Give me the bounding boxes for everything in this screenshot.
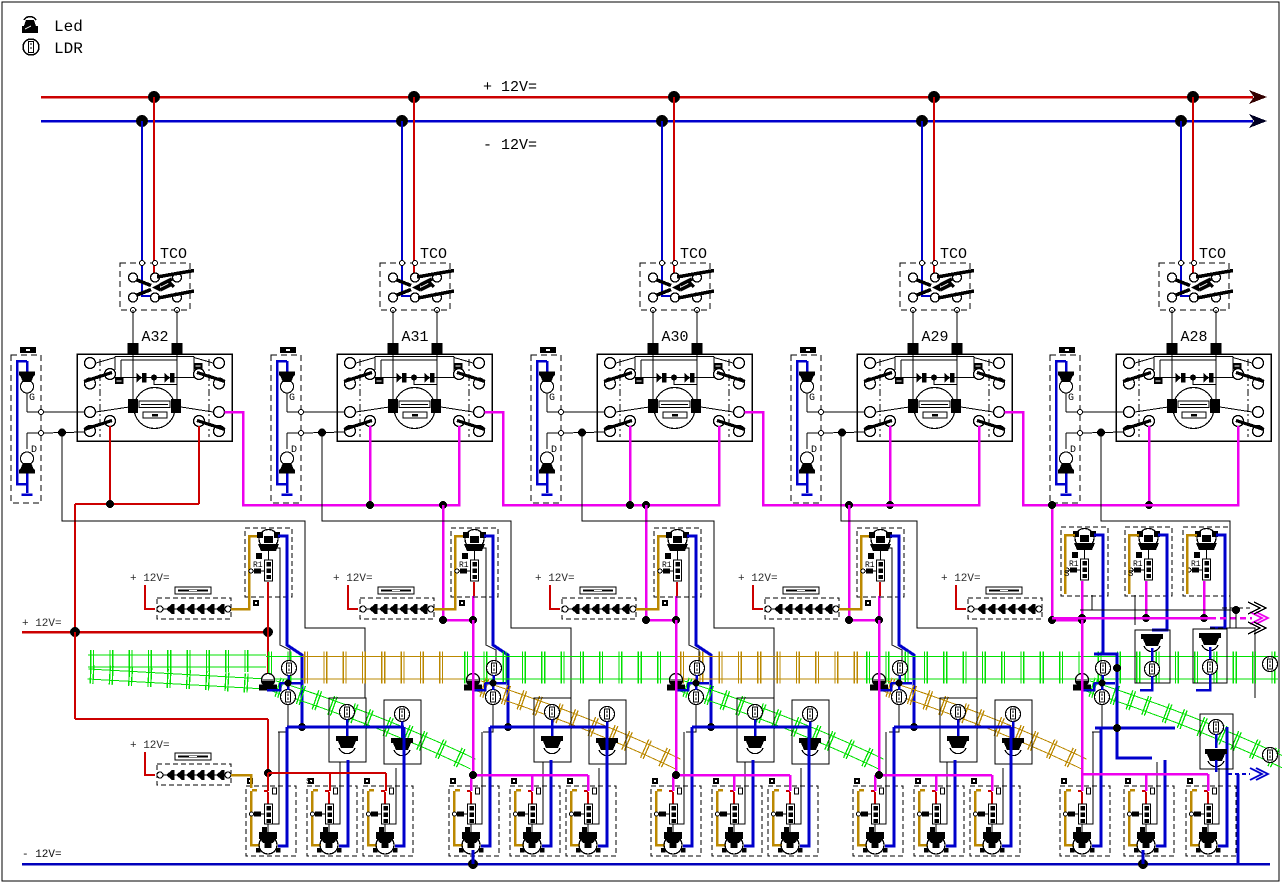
LDR right edge branch [1263,748,1278,763]
detector unit box 5-3 [1186,786,1236,856]
node J5B junction on -12V bus [1175,115,1187,127]
small icon below relay box 4 [865,600,871,606]
wire gold strip to relay box 2 [434,536,465,609]
wire black into box 3-2 [735,762,745,824]
relay unit box 5-1 [1061,527,1108,596]
wire +12V feed to strip 1 [145,585,155,609]
node J3R junction on +12V bus [668,91,680,103]
wire black routing column 2 [322,433,571,698]
detector unit box 3-2 [712,786,762,856]
wire black into box 2-3 [589,768,599,824]
terminal strip bottom [157,753,231,785]
wire blue link group 3 [692,726,809,729]
LED/LDR detector 1-1 [329,698,366,762]
icon near box 4-1 [854,778,860,784]
wire +12V feed to strip 3 [550,585,560,609]
node J5R junction on +12V bus [1187,91,1199,103]
wire blue into box 4-2 [946,760,955,846]
legend LDR symbol [23,39,39,55]
+12V supply bus (red) [41,96,1253,99]
wire red relay1 to +12V bus [267,582,269,632]
svg-text:S: S [1064,569,1069,579]
wire +12V feed to strip 2 [348,585,358,609]
wire black into box 5-3 [1209,768,1219,824]
svg-text:LDR: LDR [54,40,83,58]
wire magenta turnout control runs [225,412,1239,624]
icon near box 2-3 [567,778,573,784]
svg-text:A31: A31 [401,329,428,346]
icon near box 5-1 [1061,778,1067,784]
-12V return bus (blue) [41,120,1253,123]
svg-text:+ 12V=: + 12V= [130,740,170,752]
LED/LDR detector 2-1 [534,698,571,762]
wire TCO to module pads column 3 [648,310,703,354]
dashed black arrow upper right [1222,602,1266,614]
wire black into box 5-1 [1083,732,1093,824]
wire magenta feeds group 3 [672,620,790,791]
LED indicator box (G/D) column 1 [11,347,44,503]
icon near box 1-2 [308,778,314,784]
dashed black arrow lower right [1210,622,1266,634]
wire black into box 3-3 [791,768,801,824]
blue dashed arrow right [1228,768,1268,780]
wire blue into box 4-3 [1002,727,1011,846]
wire gold relay box 5-1 [1065,535,1075,594]
wire red drop column 2 [413,97,415,273]
turnout motor M4 [870,674,888,691]
detector unit box 4-3 [970,786,1020,856]
svg-text:TCO: TCO [940,246,967,263]
track main segment 3 [302,652,462,684]
LED/LDR detector 4-1 [940,698,977,762]
wire magenta riser relay box 5-1 [1081,581,1084,618]
LED indicator box (G/D) column 3 [531,347,564,503]
wire gold bottom strip to detector [231,775,251,788]
detector unit box 2-3 [566,786,616,856]
wire blue into box 5-1 [1092,727,1101,846]
wire blue relay box 1 to track [278,536,302,727]
LED/LDR detector main R1 [1135,630,1170,683]
wire blue into box 4-1 [885,727,894,846]
svg-text:S: S [1128,569,1133,579]
wire red bus to turnout motor 1 [267,632,269,674]
turnout driver module A28 [1116,354,1271,441]
svg-text:+ 12V=: + 12V= [22,618,62,630]
+12V local bus bottom-left [22,618,273,637]
LED/LDR detector 4-2 [995,700,1032,764]
wire blue drop column 2 [402,121,411,296]
wire black LDR to detector 1 [278,705,288,733]
turnout motor M3 [667,674,685,691]
wire black routing column 4 [841,433,977,698]
svg-text:TCO: TCO [160,246,187,263]
wire TCO to module pads column 2 [388,310,443,354]
wire black LDR to detector 4 [889,705,899,733]
wire gold strip to relay box 4 [839,536,871,609]
wire red feeds group 1 [268,773,386,791]
terminal strip X4 [765,587,839,619]
svg-text:+ 12V=: + 12V= [333,573,373,585]
wire blue into box 3-2 [744,760,753,846]
svg-text:TCO: TCO [420,246,447,263]
wire blue into box 1-1 [278,727,287,846]
wire blue drop column 4 [922,121,931,296]
wire blue relay box 5-3 down [1210,535,1225,628]
icon near box 1-1 [247,778,253,784]
track branch from turnout 5 [1086,678,1282,769]
LDR pair turnout 4 [893,661,908,676]
wire blue link group 1 [287,726,404,729]
wire blue into box 2-1 [481,727,490,846]
wire black routing column 5 [1101,433,1255,698]
wire red turnout feed column 1 [75,426,199,632]
wire gold relay box 5-2 [1129,535,1139,594]
wire blue into box 5-3 [1218,727,1227,846]
wire black LDR to detector 5 [1092,705,1102,733]
wire TCO to module pads column 1 [128,310,183,354]
detector unit box 3-3 [768,786,818,856]
wire blue LDR cross turnout 4 [878,675,912,690]
terminal strip X5 [968,587,1042,619]
wire blue LDR cross turnout 5 [1081,675,1115,690]
detector unit box 1-1 [246,786,296,856]
svg-text:Led: Led [54,18,83,36]
wire TCO to module pads column 4 [908,310,963,354]
relay unit box 2 [451,528,498,597]
magenta distribution bus right [1052,612,1268,624]
wire black into box 1-1 [269,732,279,824]
svg-text:A30: A30 [661,329,688,346]
svg-text:A32: A32 [141,329,168,346]
wire blue relay box 3 to track [687,536,711,727]
small icon below relay box 1 [253,600,259,606]
wire magenta riser relay box 5-3 [1203,581,1206,618]
node J2B junction on -12V bus [396,115,408,127]
LED/LDR detector branch R3 [1200,714,1233,769]
svg-text:- 12V=: - 12V= [22,849,62,861]
wire magenta riser relay box 5-2 [1145,581,1148,618]
wire blue into box 2-2 [542,760,551,846]
wire TCO to module pads column 5 [1167,310,1222,354]
detector unit box 4-2 [914,786,964,856]
wire gold strip to relay box 1 [231,536,259,609]
track main segment 6 [864,652,1278,684]
track branch from turnout 4 [883,678,1086,769]
detector unit box 2-2 [510,786,560,856]
LED indicator box (G/D) column 5 [1050,347,1083,503]
terminal strip X3 [562,587,636,619]
wire red relay2 stub [473,582,475,596]
wire black into box 4-1 [876,732,886,824]
turnout motor M2 [464,674,482,691]
relay unit box 1 [245,528,292,597]
detector unit box 5-2 [1124,786,1174,856]
icon near box 2-1 [450,778,456,784]
wire blue into box 2-3 [598,727,607,846]
TCO switch box column 4 [900,246,974,313]
icon near box 1-3 [364,778,370,784]
wire black into box 5-2 [1147,762,1157,824]
wire blue relay box 5-2 down [1152,535,1167,630]
legend LED symbol [22,17,38,33]
icon near box 3-1 [652,778,658,784]
node J4R junction on +12V bus [928,91,940,103]
small icon below relay box 3 [662,600,668,606]
wire module inputs column 1 [43,412,85,437]
wire blue link group 4 [894,726,1011,729]
wire +12V feed to strip 5 [956,585,966,609]
svg-text:+ 12V=: + 12V= [941,573,981,585]
detector unit box 3-1 [651,786,701,856]
wire blue LDR cross turnout 3 [675,675,709,690]
wire module inputs column 3 [563,412,605,437]
icon near box 5-3 [1187,778,1193,784]
wire module inputs column 2 [303,412,345,437]
wire blue drop column 5 [1181,121,1190,296]
wire red relay4 stub [879,582,881,596]
svg-text:+ 12V=: + 12V= [738,573,778,585]
wire red relay3 stub [676,582,678,596]
wire black relay box 4 to LDR [887,548,902,661]
track branch into turnout 1 [88,665,267,693]
node J2R junction on +12V bus [408,91,420,103]
svg-text:A28: A28 [1180,329,1207,346]
wire black right zone [1080,595,1240,628]
node J3B junction on -12V bus [656,115,668,127]
TCO switch box column 3 [640,246,714,313]
track main segment 5 [678,652,864,684]
relay unit box 5-3 [1183,527,1230,596]
terminal strip X1 [157,587,231,619]
LED/LDR detector 3-1 [737,698,774,762]
relay unit box 4 [857,528,904,597]
wire black LDR to detector 2 [483,705,493,733]
wire module inputs column 4 [823,412,865,437]
detector unit box 5-1 [1060,786,1110,856]
wire black routing column 1 [62,433,365,698]
wire blue relay box 2 to track [484,536,508,727]
icon near box 4-2 [915,778,921,784]
wire blue into box 1-2 [339,760,348,846]
wire blue drop column 1 [142,121,151,296]
track branch from turnout 3 [680,678,883,769]
turnout motor M5 [1073,674,1091,691]
wire red drop column 3 [673,97,675,273]
svg-text:+ 12V=: + 12V= [535,573,575,585]
svg-text:TCO: TCO [680,246,707,263]
icon near box 4-3 [971,778,977,784]
turnout driver module A31 [337,354,492,441]
wire red drop column 4 [933,97,935,273]
LED indicator box (G/D) column 2 [271,347,304,503]
wire blue LDR cross turnout 2 [472,675,506,690]
track main segment 4 [462,652,678,684]
LED/LDR detector 1-2 [384,700,421,764]
wire black into box 3-1 [674,732,684,824]
wire blue link group 2 [490,726,607,729]
wire blue relay box 5-1 down [1094,535,1103,654]
wire blue into box 3-3 [800,727,809,846]
wire magenta feeds group 5 [1082,620,1208,791]
node J1R junction on +12V bus [148,91,160,103]
icon near box 2-2 [511,778,517,784]
wire blue drop column 3 [662,121,671,296]
wire blue LDR cross turnout 1 [267,675,301,690]
wire black relay box 2 to LDR [481,548,496,661]
TCO switch box column 1 [120,246,194,313]
turnout driver module A29 [857,354,1012,441]
track branch from turnout 1 [272,678,475,769]
wire black LDR to detector 3 [686,705,696,733]
svg-text:S: S [306,777,311,787]
LDR pair turnout 3 [690,661,705,676]
TCO switch box column 2 [380,246,454,313]
wire gold relay box 5-3 [1187,535,1197,594]
-12V local bus bottom [22,849,1270,869]
arrowhead of +12V bus [1249,90,1267,104]
icon near box 3-2 [713,778,719,784]
svg-text:+ 12V=: + 12V= [130,573,170,585]
wire blue relay box 4 to track [890,536,914,727]
detector unit box 4-1 [853,786,903,856]
LED indicator box (G/D) column 4 [791,347,824,503]
detector unit box 1-2 [307,786,357,856]
wire blue into box 3-1 [683,727,692,846]
terminal strip X2 [360,587,434,619]
wire black routing column 3 [582,433,774,698]
LDR pair turnout 2 [487,661,502,676]
wire blue into box 1-3 [395,727,404,846]
wire blue bus risers [473,850,1143,864]
LDR right edge main [1263,657,1278,672]
wire red drop column 1 [153,97,155,273]
wire black into box 1-2 [330,762,340,824]
LED/LDR detector 3-2 [792,700,829,764]
relay unit box 3 [654,528,701,597]
wire module inputs column 5 [1082,412,1124,437]
detector unit box 1-3 [363,786,413,856]
svg-text:+ 12V=: + 12V= [483,79,537,96]
wire gold strip to relay box 3 [636,536,668,609]
LDR pair turnout 5 [1096,661,1111,676]
wire black into box 4-3 [993,768,1003,824]
wire +12V feed to strip 4 [753,585,763,609]
wire black into box 2-2 [533,762,543,824]
turnout driver module A30 [597,354,752,441]
wire blue into box 5-2 [1156,760,1165,846]
arrowhead of -12V bus [1249,114,1267,128]
svg-text:A29: A29 [921,329,948,346]
small icon below relay box 2 [459,600,465,606]
relay unit box 5-2 [1125,527,1172,596]
wire black into box 2-1 [472,732,482,824]
track branch from turnout 2 [477,678,680,769]
track main segment 2 [266,652,302,684]
wire magenta feeds group 2 [469,620,588,791]
wire black into box 4-2 [937,762,947,824]
track main segment 1 [88,650,266,672]
turnout driver module A32 [77,354,232,441]
wire +12V feed to bottom strip [145,752,155,775]
node J4B junction on -12V bus [916,115,928,127]
icon near box 5-2 [1125,778,1131,784]
detector unit box 2-1 [449,786,499,856]
TCO switch box column 5 [1159,246,1233,313]
wire blue right zone [1094,654,1238,864]
wire black into box 1-3 [386,768,396,824]
LED/LDR detector main R2 [1193,629,1227,683]
wire black relay box 3 to LDR [684,548,699,661]
LED/LDR detector 2-2 [589,700,626,764]
svg-text:- 12V=: - 12V= [483,137,537,154]
wire black relay box 1 to LDR [275,548,290,661]
wire red loop to detector group 1 [75,632,272,786]
svg-text:TCO: TCO [1199,246,1226,263]
wire magenta feeds group 4 [875,620,992,791]
wire red drop column 5 [1192,97,1194,273]
LDR pair turnout 1 [282,661,297,676]
turnout motor M1 [259,674,277,691]
icon near box 3-3 [769,778,775,784]
node J1B junction on -12V bus [136,115,148,127]
